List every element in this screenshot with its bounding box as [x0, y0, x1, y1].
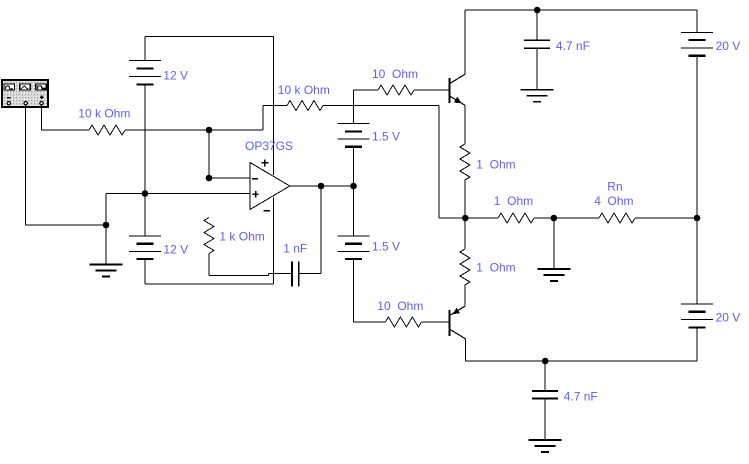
node top rail cap: [534, 7, 541, 14]
wire Q1 collector up: [464, 10, 466, 74]
label 1 Ohm load: [494, 194, 533, 208]
wire cap to output node: [299, 273, 321, 275]
label 4 Ohm: [594, 194, 633, 208]
ground top cap: [521, 90, 554, 102]
battery V1 12V: [129, 61, 161, 85]
transistor Q1 NPN: [450, 74, 465, 105]
label OP37GS: [245, 139, 293, 153]
node right rail: [694, 215, 701, 222]
ground bottom cap: [529, 440, 562, 452]
wire battery V5 down: [696, 56, 698, 304]
svg-text:1 k Ohm: 1 k Ohm: [219, 230, 264, 244]
label 1 Ohm lower: [476, 261, 515, 275]
wire cap C1 bottom lead: [536, 48, 538, 90]
battery V4 1.5V: [338, 236, 370, 259]
wire R lower to Q2 emitter: [464, 285, 466, 306]
svg-text:4.7 nF: 4.7 nF: [556, 39, 590, 53]
svg-text:10 k Ohm: 10 k Ohm: [78, 107, 130, 121]
wire cap C1 top lead: [536, 10, 538, 40]
svg-text:4.7 nF: 4.7 nF: [564, 390, 598, 404]
wire output node down: [320, 186, 322, 274]
wire 1k to cap: [209, 274, 269, 276]
svg-text:1.5 V: 1.5 V: [372, 130, 400, 144]
wire rail to battery V5: [696, 10, 698, 32]
label 1 k Ohm: [219, 230, 264, 244]
node load ground junction: [551, 215, 558, 222]
wire inverting node down: [208, 130, 210, 178]
wire ground branch vertical: [105, 194, 107, 265]
resistor 1 Ohm lower: [460, 249, 470, 285]
resistor Rn 4 Ohm: [599, 213, 635, 223]
node battery midpoint: [142, 190, 149, 197]
wire to R 10 Ohm top: [354, 89, 379, 91]
label 20 V bottom: [716, 311, 741, 325]
wire lower emitter resistor lead: [464, 218, 466, 249]
svg-text:1 Ohm: 1 Ohm: [476, 261, 515, 275]
wire cap jog: [268, 274, 270, 276]
node inverting input: [206, 175, 213, 182]
wire non-inverting input: [106, 193, 250, 195]
wire R10 to Q2 base: [421, 321, 448, 323]
wire R upper to node: [464, 180, 466, 218]
svg-text:1 nF: 1 nF: [283, 242, 307, 256]
label 4.7 nF top: [556, 39, 590, 53]
wire Q1 emitter: [464, 105, 466, 144]
wire cap C2 top lead: [544, 361, 546, 391]
wire 1k bottom: [208, 254, 210, 276]
resistor 10 k Ohm feedback: [287, 101, 323, 111]
node emitter junction: [462, 215, 469, 222]
wire battery V3 up: [353, 90, 355, 124]
function generator XFG1: [1, 79, 49, 108]
label 1.5 V bottom: [372, 240, 400, 254]
svg-text:4 Ohm: 4 Ohm: [594, 194, 633, 208]
wire R10k to inverting node: [125, 129, 263, 131]
wire positive supply top: [145, 36, 274, 38]
wire output to battery V4: [353, 186, 355, 236]
label 1 nF: [283, 242, 307, 256]
label 1 Ohm upper: [476, 158, 515, 172]
svg-text:10 Ohm: 10 Ohm: [377, 299, 423, 313]
battery V5 20V: [681, 32, 713, 55]
resistor 10 Ohm top: [378, 85, 414, 95]
label 1.5 V top: [372, 130, 400, 144]
svg-text:1 Ohm: 1 Ohm: [494, 194, 533, 208]
op-amp U1 OP37GS: [250, 159, 290, 210]
node output bias: [350, 183, 357, 190]
wire jog to cap: [269, 273, 293, 275]
capacitor 1 nF: [292, 262, 299, 287]
wire inverting input: [209, 177, 250, 179]
wire to R 10k feedback: [263, 105, 287, 107]
node FG common junction: [103, 222, 110, 229]
svg-text:12 V: 12 V: [163, 243, 188, 257]
label 20 V top: [716, 39, 741, 53]
svg-text:Rn: Rn: [607, 180, 622, 194]
svg-text:20 V: 20 V: [716, 39, 741, 53]
wire cap C2 bottom lead: [544, 399, 546, 441]
wire op-amp output: [290, 185, 354, 187]
wire top rail: [465, 9, 697, 11]
node inverting input junction: [206, 127, 213, 134]
capacitor C2 4.7 nF: [532, 391, 558, 399]
ground mid: [537, 269, 570, 281]
wire battery V4 down: [353, 259, 355, 322]
node output: [318, 183, 325, 190]
battery V3 1.5V: [338, 124, 370, 147]
svg-text:OP37GS: OP37GS: [245, 139, 293, 153]
wire ground mid lead: [553, 218, 555, 269]
ground left: [90, 265, 123, 277]
wire FG common right: [26, 224, 106, 226]
wire negative supply rail: [273, 198, 275, 284]
wire FG + output down: [41, 105, 43, 130]
wire FG + to R 10k: [42, 129, 90, 131]
wire FG common down: [25, 105, 27, 225]
label 10 Ohm bottom: [377, 299, 423, 313]
wire R10 to Q1 base: [414, 89, 449, 91]
label 10 k Ohm input: [78, 107, 130, 121]
svg-text:10 k Ohm: 10 k Ohm: [278, 83, 330, 97]
wire Rn to right rail: [635, 217, 697, 219]
wire negative supply horizontal: [145, 283, 274, 285]
resistor 1 k Ohm feedback: [204, 218, 214, 254]
wire output to battery V3: [353, 147, 355, 186]
svg-text:10 Ohm: 10 Ohm: [372, 67, 418, 81]
resistor 10 Ohm bottom: [385, 317, 421, 327]
label 4.7 nF bottom: [564, 390, 598, 404]
wire battery V2 down: [144, 259, 146, 284]
wire to R 10 Ohm bottom: [354, 321, 386, 323]
resistor 10 k Ohm input: [89, 125, 125, 135]
battery V6 20V: [681, 304, 713, 327]
svg-text:12 V: 12 V: [163, 69, 188, 83]
wire Q2 collector down: [464, 339, 466, 361]
wire R10k feedback right: [323, 105, 439, 107]
svg-text:20 V: 20 V: [716, 311, 741, 325]
wire inverting node up: [262, 106, 264, 131]
wire positive supply rail: [273, 37, 275, 176]
wire emitter node line: [439, 217, 498, 219]
wire battery V6 down: [696, 328, 698, 362]
label 12 V top: [163, 69, 188, 83]
svg-text:1 Ohm: 1 Ohm: [476, 158, 515, 172]
label 10 Ohm top: [372, 67, 418, 81]
wire R load to ground node: [534, 217, 599, 219]
node bottom rail cap: [542, 358, 549, 365]
label 10 k Ohm feedback: [278, 83, 330, 97]
resistor 1 Ohm upper: [460, 144, 470, 180]
svg-text:1.5 V: 1.5 V: [372, 240, 400, 254]
capacitor C1 4.7 nF: [524, 40, 550, 48]
label 12 V bottom: [163, 243, 188, 257]
battery V2 12V: [129, 236, 161, 259]
wire battery V1 to V2: [144, 85, 146, 237]
transistor Q2 PNP: [449, 306, 465, 339]
wire bottom rail: [465, 360, 697, 362]
wire feedback down: [438, 106, 440, 219]
label Rn: [607, 180, 622, 194]
wire top rail to battery V1: [144, 37, 146, 61]
resistor 1 Ohm load: [498, 213, 534, 223]
